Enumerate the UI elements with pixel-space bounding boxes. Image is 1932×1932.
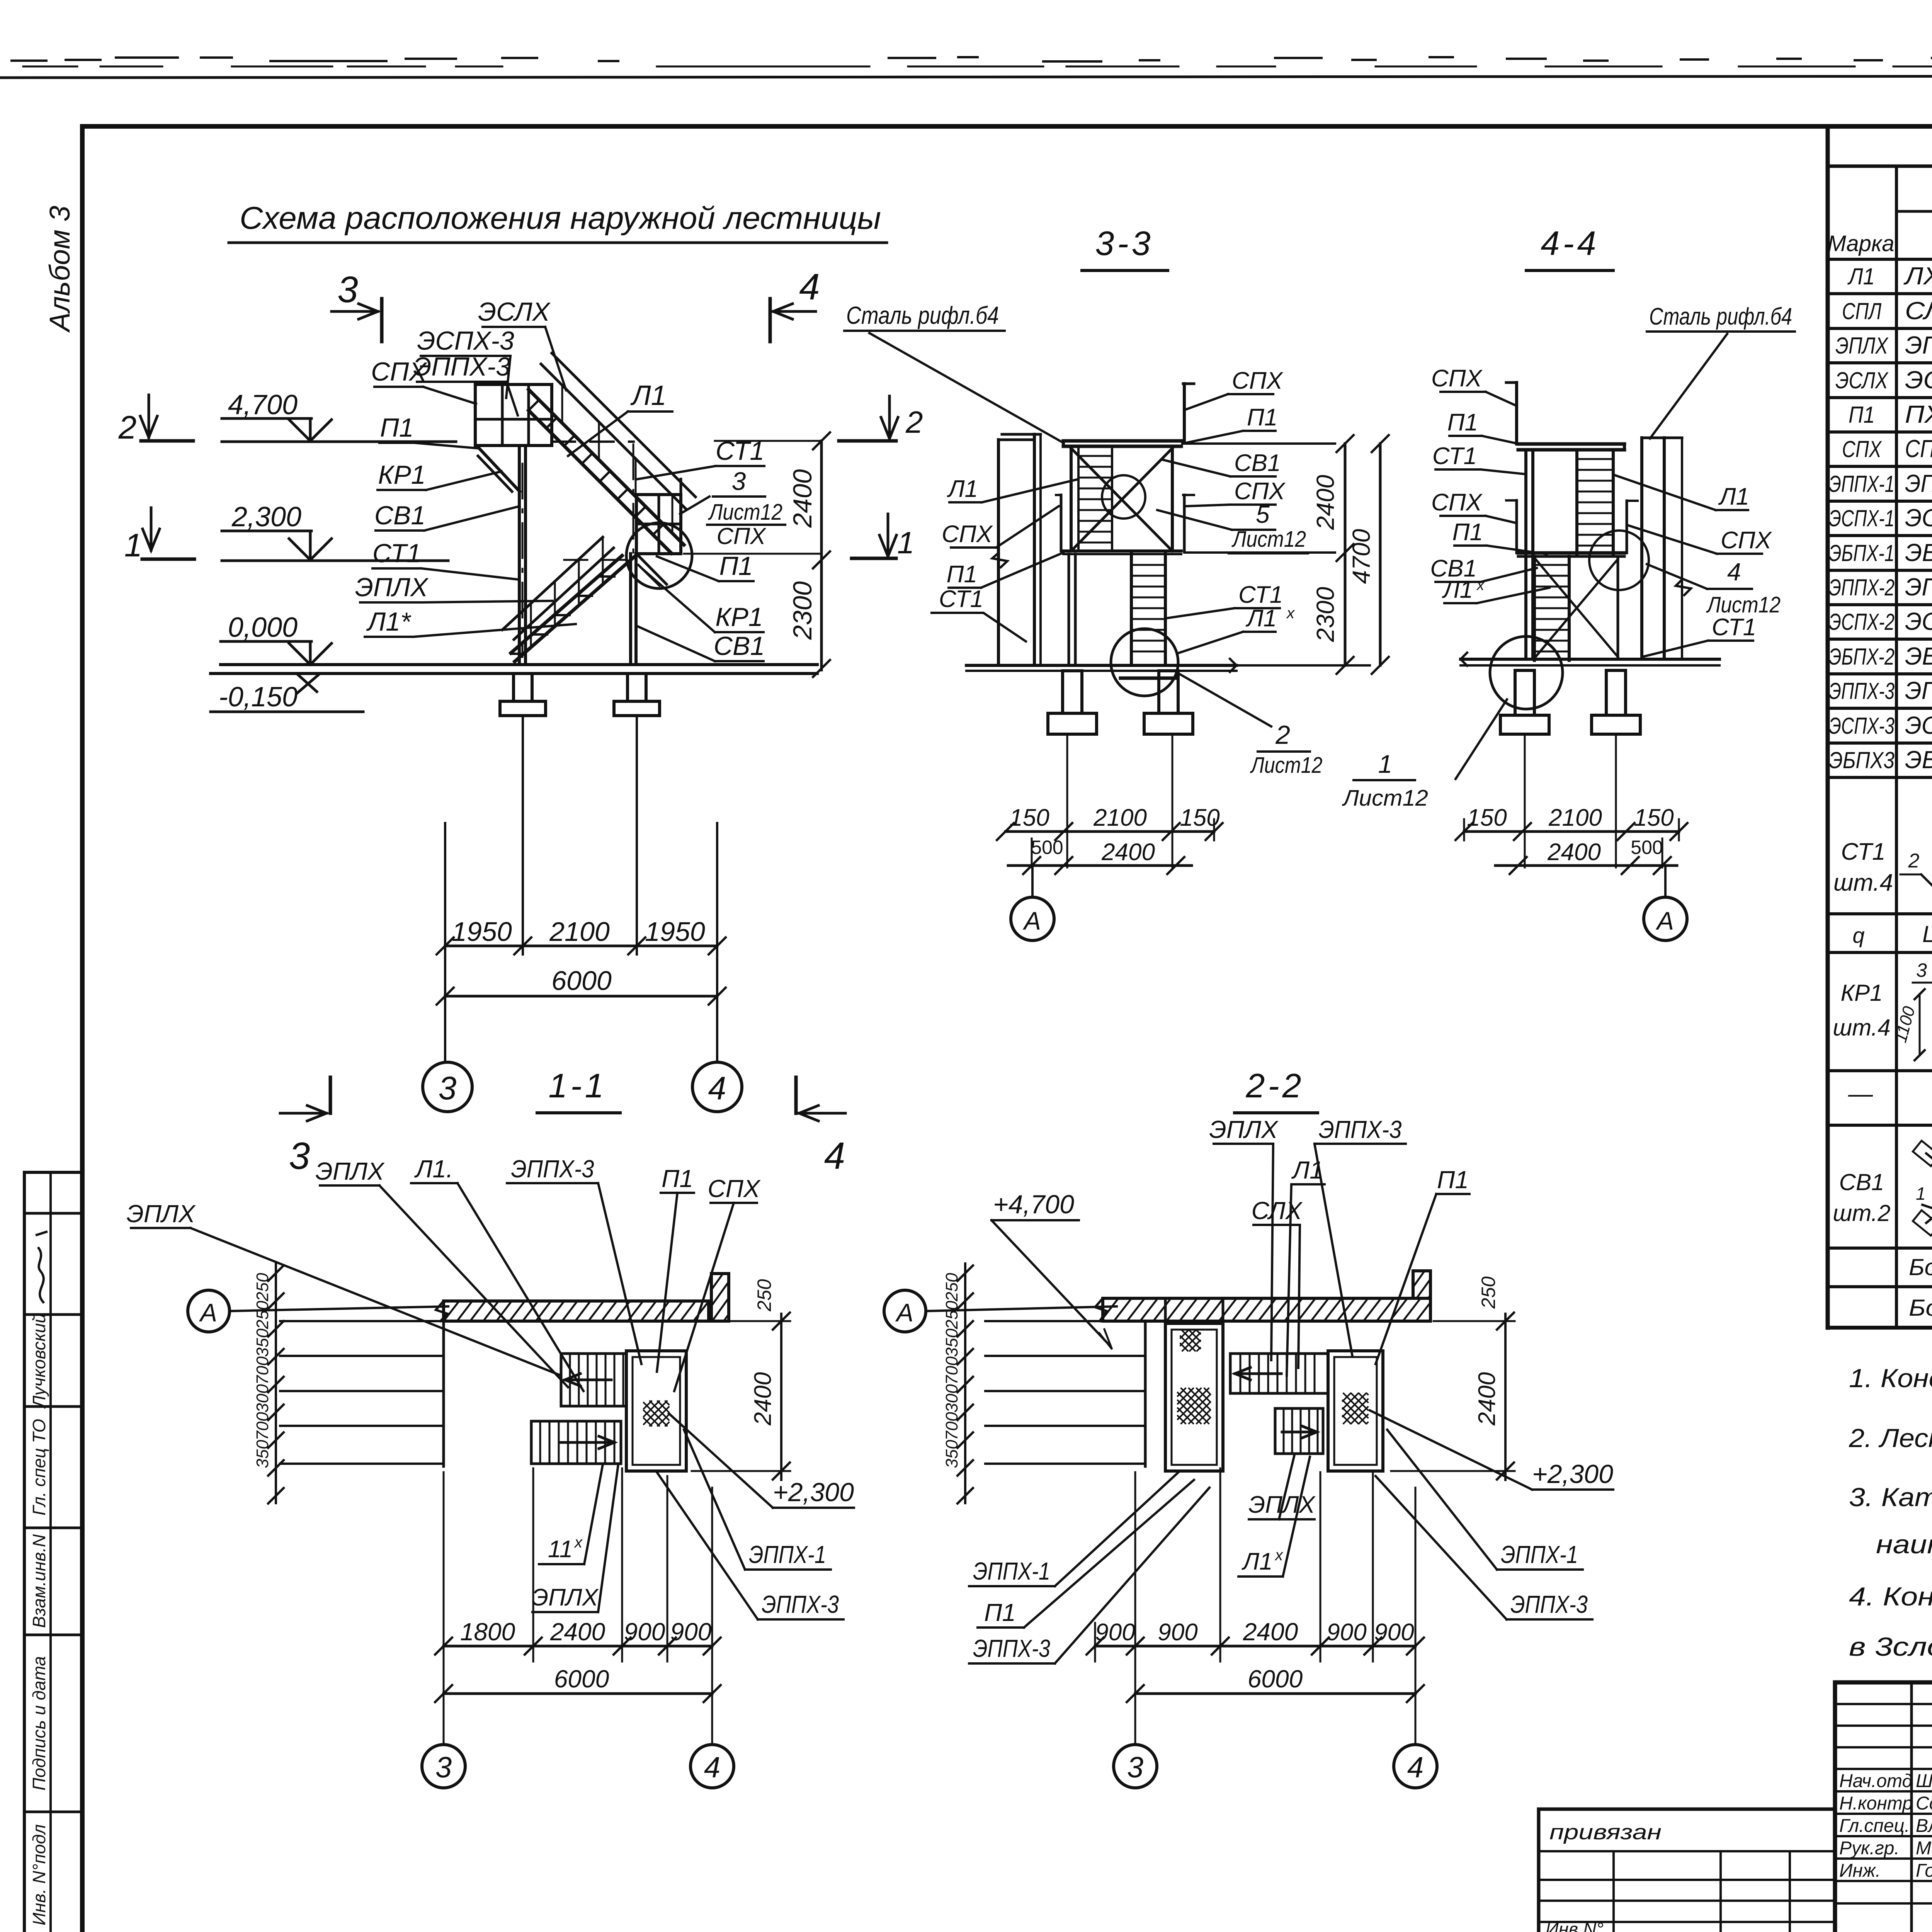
svg-text:Власенко: Власенко: [1916, 1816, 1932, 1836]
svg-text:2400: 2400: [788, 469, 817, 528]
svg-text:2. Лестницу Л1* укоротить на: 2. Лестницу Л1* укоротить на 100мм: [1849, 1423, 1932, 1453]
svg-text:СВ1: СВ1: [1839, 1169, 1884, 1195]
svg-text:6000: 6000: [551, 966, 612, 996]
svg-text:СТ1: СТ1: [372, 539, 421, 568]
svg-text:250: 250: [253, 1301, 272, 1330]
svg-text:4700: 4700: [1347, 529, 1375, 584]
svg-text:СПХ: СПХ: [1431, 489, 1483, 516]
svg-text:ЭППХ-1: ЭППХ-1: [749, 1541, 826, 1568]
svg-text:СПЛ: СПЛ: [1842, 298, 1882, 324]
svg-text:ЭППХ-3: ЭППХ-3: [413, 352, 510, 381]
svg-text:1: 1: [1916, 1184, 1926, 1204]
svg-text:СЛХ: СЛХ: [1252, 1197, 1303, 1225]
svg-text:ЛХФ45-24,7: ЛХФ45-24,7: [1903, 262, 1932, 290]
svg-text:+4,700: +4,700: [993, 1190, 1074, 1219]
svg-text:2: 2: [905, 405, 923, 439]
svg-text:ЭСПХ-24: ЭСПХ-24: [1905, 504, 1932, 532]
svg-text:ЭПЛХ: ЭПЛХ: [126, 1200, 196, 1228]
svg-text:2: 2: [1275, 720, 1290, 750]
svg-text:3: 3: [337, 269, 358, 310]
svg-text:Сокольская: Сокольская: [1916, 1793, 1932, 1814]
svg-text:привязан: привязан: [1549, 1820, 1662, 1844]
svg-text:1-1: 1-1: [548, 1066, 607, 1105]
svg-text:х: х: [574, 1534, 583, 1551]
svg-text:4. Конструкции лестницы окра: 4. Конструкции лестницы окрасить эмалью …: [1849, 1582, 1932, 1611]
svg-text:ЭПЛХ: ЭПЛХ: [355, 573, 429, 602]
svg-text:СВ1: СВ1: [1234, 450, 1281, 476]
svg-text:ПХФ 24.9: ПХФ 24.9: [1905, 400, 1932, 428]
svg-text:700: 700: [942, 1356, 961, 1385]
svg-text:ЭППХ-3: ЭППХ-3: [1829, 678, 1895, 704]
svg-text:Л1.: Л1.: [414, 1155, 453, 1183]
svg-text:П1: П1: [1247, 404, 1277, 431]
svg-text:4: 4: [799, 266, 820, 308]
svg-text:250: 250: [753, 1279, 775, 1312]
svg-text:П1: П1: [984, 1599, 1016, 1626]
svg-text:0,000: 0,000: [228, 612, 298, 643]
svg-text:ЭППХ-3: ЭППХ-3: [973, 1634, 1050, 1662]
svg-text:-0,150: -0,150: [219, 682, 298, 713]
svg-text:СПХ: СПХ: [1905, 435, 1932, 463]
svg-text:СПХ: СПХ: [1842, 436, 1882, 462]
svg-text:ЭБПХ-15: ЭБПХ-15: [1905, 642, 1932, 670]
svg-text:ЭСЛХ 45-24: ЭСЛХ 45-24: [1905, 366, 1932, 394]
svg-text:ЭПЛХ: ЭПЛХ: [532, 1584, 599, 1611]
svg-text:ЭБПХ-2: ЭБПХ-2: [1829, 644, 1895, 670]
svg-text:СТ1: СТ1: [1432, 443, 1477, 469]
svg-text:СПХ: СПХ: [942, 521, 993, 548]
svg-text:1800: 1800: [460, 1618, 515, 1646]
svg-text:2400: 2400: [1101, 839, 1155, 866]
svg-text:А: А: [1655, 906, 1674, 935]
svg-text:250: 250: [942, 1273, 961, 1302]
svg-text:1. Конструкции лестницы расч: 1. Конструкции лестницы расчитаны на наг…: [1849, 1364, 1932, 1393]
svg-text:ЭППХ24: ЭППХ24: [1905, 469, 1932, 497]
svg-text:П1: П1: [1437, 1166, 1469, 1194]
svg-text:+2,300: +2,300: [773, 1478, 854, 1507]
svg-text:Лист12: Лист12: [1342, 786, 1428, 811]
svg-text:900: 900: [624, 1618, 665, 1646]
svg-text:П1: П1: [1447, 409, 1478, 436]
svg-text:ЭСЛХ: ЭСЛХ: [478, 297, 551, 327]
svg-text:П1: П1: [662, 1165, 693, 1192]
svg-text:3: 3: [439, 1070, 457, 1106]
svg-text:Болт М12: Болт М12: [1909, 1254, 1932, 1280]
svg-text:350: 350: [253, 1440, 272, 1468]
svg-text:3. Катет неоговоренных сварн: 3. Катет неоговоренных сварных швов прин…: [1849, 1483, 1932, 1512]
svg-text:Схема расположения наружной ле: Схема расположения наружной лестницы: [240, 201, 881, 236]
svg-text:2100: 2100: [549, 917, 610, 947]
svg-text:П1: П1: [380, 413, 413, 442]
svg-text:КР1: КР1: [715, 602, 763, 632]
svg-text:1: 1: [1378, 750, 1393, 778]
svg-text:4: 4: [1727, 558, 1741, 586]
svg-text:4: 4: [1407, 1751, 1423, 1784]
svg-text:ЭПЛХ: ЭПЛХ: [1209, 1116, 1279, 1143]
svg-text:ЭСЛХ: ЭСЛХ: [1835, 367, 1889, 393]
svg-text:4: 4: [824, 1134, 845, 1177]
svg-text:2400: 2400: [1311, 474, 1339, 530]
svg-text:2400: 2400: [1547, 839, 1601, 866]
svg-text:11: 11: [548, 1536, 573, 1563]
svg-text:700: 700: [253, 1356, 272, 1385]
svg-text:шт.2: шт.2: [1833, 1200, 1890, 1226]
svg-text:СЛХ 45Л(п): СЛХ 45Л(п): [1905, 297, 1932, 325]
svg-text:КР1: КР1: [378, 460, 425, 490]
svg-text:ЭППХ-15: ЭППХ-15: [1905, 573, 1932, 601]
svg-text:4-4: 4-4: [1541, 224, 1599, 262]
svg-text:Л1: Л1: [1245, 605, 1277, 632]
svg-text:3: 3: [289, 1134, 310, 1177]
svg-text:ЭПЛХ: ЭПЛХ: [1835, 333, 1889, 359]
svg-text:1: 1: [124, 527, 143, 563]
svg-text:СТ1: СТ1: [1238, 582, 1283, 608]
svg-text:Н.контр: Н.контр: [1839, 1793, 1913, 1814]
svg-text:Лист12: Лист12: [707, 500, 782, 525]
svg-text:2300: 2300: [788, 581, 817, 640]
svg-text:—: —: [1848, 1080, 1873, 1107]
svg-text:ЭППХ-3: ЭППХ-3: [1319, 1116, 1402, 1143]
svg-text:ЭППХ-1: ЭППХ-1: [973, 1557, 1050, 1585]
svg-text:ЭБПХ-9: ЭБПХ-9: [1905, 746, 1932, 774]
svg-text:2: 2: [1908, 850, 1920, 872]
svg-text:ЭБПХ-1: ЭБПХ-1: [1829, 540, 1895, 566]
svg-text:ЭППХ-1: ЭППХ-1: [1829, 471, 1895, 497]
svg-text:2400: 2400: [1243, 1618, 1298, 1646]
svg-text:350: 350: [253, 1328, 272, 1357]
svg-text:2400: 2400: [1474, 1372, 1500, 1426]
svg-text:150: 150: [1009, 804, 1049, 831]
svg-text:2400: 2400: [750, 1372, 776, 1426]
svg-text:П1: П1: [1452, 519, 1483, 546]
svg-text:2100: 2100: [1093, 804, 1147, 831]
svg-text:2: 2: [118, 409, 137, 446]
svg-text:2300: 2300: [1311, 587, 1339, 642]
svg-text:Гл.спец.: Гл.спец.: [1839, 1816, 1910, 1836]
svg-text:А: А: [199, 1298, 217, 1327]
svg-text:СТ1: СТ1: [939, 586, 983, 612]
svg-text:3: 3: [435, 1751, 452, 1784]
svg-text:х: х: [1286, 605, 1295, 622]
svg-text:2100: 2100: [1548, 804, 1602, 831]
svg-text:СТ1: СТ1: [1841, 838, 1885, 865]
svg-text:150: 150: [1634, 804, 1673, 831]
svg-text:Болт М20: Болт М20: [1909, 1295, 1932, 1321]
svg-text:шт.4: шт.4: [1833, 869, 1893, 896]
svg-text:Сталь рифл.б4: Сталь рифл.б4: [846, 301, 999, 329]
svg-text:Лучковский: Лучковский: [29, 1313, 49, 1409]
svg-text:+2,300: +2,300: [1532, 1459, 1613, 1489]
svg-text:х: х: [1476, 577, 1485, 594]
svg-text:ЭСПХ-3: ЭСПХ-3: [1829, 713, 1895, 739]
svg-text:Л1: Л1: [947, 476, 978, 502]
svg-text:наименьшей толщине свариваем: наименьшей толщине свариваемых элементов: [1876, 1530, 1932, 1559]
svg-text:6000: 6000: [554, 1665, 609, 1693]
svg-text:700: 700: [253, 1412, 272, 1440]
svg-text:2-2: 2-2: [1245, 1066, 1304, 1105]
svg-text:Мазалова: Мазалова: [1916, 1838, 1932, 1859]
svg-text:КР1: КР1: [1841, 980, 1883, 1006]
svg-text:ЭППХ-9: ЭППХ-9: [1905, 677, 1932, 704]
svg-text:СПХ: СПХ: [1721, 527, 1772, 554]
svg-text:900: 900: [1374, 1619, 1414, 1646]
svg-text:Сталь рифл.б4: Сталь рифл.б4: [1649, 303, 1792, 330]
svg-text:700: 700: [942, 1412, 961, 1440]
svg-text:6000: 6000: [1248, 1665, 1303, 1693]
svg-text:ЭСПХ-1: ЭСПХ-1: [1829, 505, 1895, 531]
svg-text:ЭППХ-3: ЭППХ-3: [1510, 1590, 1588, 1618]
svg-text:ЭСПХ-3: ЭСПХ-3: [417, 326, 514, 355]
svg-text:Рук.гр.: Рук.гр.: [1839, 1838, 1900, 1859]
svg-text:СПХ: СПХ: [707, 1175, 761, 1202]
svg-text:2400: 2400: [550, 1618, 605, 1646]
svg-text:5: 5: [1256, 500, 1270, 528]
svg-text:Инв. N°подл: Инв. N°подл: [29, 1824, 49, 1925]
svg-text:4: 4: [708, 1070, 726, 1106]
svg-text:СПХ: СПХ: [1431, 365, 1483, 392]
svg-text:Л1: Л1: [1442, 577, 1473, 603]
svg-text:4: 4: [704, 1751, 720, 1784]
svg-text:500: 500: [1031, 837, 1063, 858]
svg-text:900: 900: [1095, 1619, 1135, 1646]
svg-text:Л1: Л1: [1242, 1548, 1273, 1575]
svg-text:ЭСПХ-2: ЭСПХ-2: [1829, 609, 1895, 635]
svg-text:Л1: Л1: [1847, 264, 1875, 289]
svg-text:СПХ: СПХ: [1232, 367, 1284, 394]
svg-text:250: 250: [1478, 1276, 1499, 1309]
svg-text:3: 3: [1916, 959, 1927, 981]
svg-text:Л1*: Л1*: [366, 607, 412, 636]
svg-text:Л1: Л1: [630, 380, 666, 411]
svg-text:СПХ: СПХ: [717, 523, 767, 549]
svg-text:Голосов: Голосов: [1916, 1861, 1932, 1881]
svg-text:ЭБПХ3: ЭБПХ3: [1829, 747, 1895, 773]
svg-text:300: 300: [253, 1384, 272, 1413]
svg-text:ЭППХ-3: ЭППХ-3: [511, 1155, 594, 1183]
svg-text:Взам.инв.N: Взам.инв.N: [29, 1534, 49, 1628]
svg-text:ЭСПХ-15: ЭСПХ-15: [1905, 607, 1932, 635]
svg-text:Гл. спец ТО: Гл. спец ТО: [29, 1419, 49, 1515]
svg-text:1950: 1950: [645, 917, 705, 947]
svg-text:1: 1: [897, 526, 915, 560]
svg-text:ЭПЛХ: ЭПЛХ: [315, 1157, 385, 1185]
svg-text:4,700: 4,700: [228, 389, 298, 420]
svg-text:Альбом 3: Альбом 3: [44, 206, 76, 333]
svg-text:СТ1: СТ1: [1712, 614, 1756, 641]
svg-text:1950: 1950: [452, 917, 512, 947]
svg-text:СПХ: СПХ: [371, 357, 427, 386]
svg-text:2,300: 2,300: [231, 502, 301, 532]
svg-text:250: 250: [253, 1273, 272, 1302]
svg-text:150: 150: [1467, 804, 1507, 831]
svg-text:250: 250: [942, 1301, 961, 1330]
svg-text:ЭПЛХ45-24: ЭПЛХ45-24: [1905, 331, 1932, 359]
svg-text:Шейко: Шейко: [1916, 1771, 1932, 1791]
svg-text:L: L: [1922, 921, 1932, 947]
svg-text:300: 300: [942, 1384, 961, 1413]
svg-text:Марка: Марка: [1827, 231, 1894, 256]
svg-text:П1: П1: [947, 561, 977, 588]
svg-text:Инж.: Инж.: [1839, 1861, 1881, 1881]
svg-text:Л1: Л1: [1291, 1156, 1323, 1184]
svg-text:Лист12: Лист12: [1250, 753, 1322, 778]
svg-text:А: А: [895, 1298, 913, 1327]
svg-text:3: 3: [1127, 1751, 1143, 1784]
svg-text:350: 350: [942, 1328, 961, 1357]
svg-text:СВ1: СВ1: [374, 501, 425, 530]
svg-text:3: 3: [732, 467, 746, 495]
svg-text:ЭППХ-3: ЭППХ-3: [762, 1590, 839, 1618]
svg-text:шт.4: шт.4: [1833, 1015, 1890, 1041]
svg-text:Лист12: Лист12: [1231, 527, 1306, 552]
svg-text:СВ1: СВ1: [714, 631, 765, 661]
svg-text:в 3слоя по слою грунта ГФ: в 3слоя по слою грунта ГФ-0119: [1849, 1632, 1932, 1662]
svg-text:900: 900: [1158, 1619, 1197, 1646]
svg-text:А: А: [1022, 906, 1041, 935]
svg-text:Нач.отд: Нач.отд: [1839, 1771, 1912, 1791]
svg-text:х: х: [1274, 1547, 1284, 1564]
svg-text:Л1: Л1: [1718, 483, 1749, 510]
svg-text:350: 350: [942, 1440, 961, 1468]
svg-text:ЭБПХ-24: ЭБПХ-24: [1905, 539, 1932, 566]
svg-text:П1: П1: [719, 551, 753, 581]
svg-text:ЭППХ-1: ЭППХ-1: [1501, 1541, 1578, 1568]
svg-text:900: 900: [670, 1618, 712, 1646]
svg-text:П1: П1: [1849, 402, 1875, 428]
svg-text:500: 500: [1631, 837, 1663, 858]
svg-text:Подпись и дата: Подпись и дата: [29, 1656, 49, 1791]
svg-text:ЭСПХ-9: ЭСПХ-9: [1905, 711, 1932, 739]
svg-text:3-3: 3-3: [1095, 224, 1153, 262]
svg-text:q: q: [1852, 923, 1864, 947]
svg-text:ЭППХ-2: ЭППХ-2: [1829, 575, 1895, 600]
svg-text:900: 900: [1327, 1619, 1366, 1646]
svg-text:Инв.N°: Инв.N°: [1546, 1919, 1604, 1932]
